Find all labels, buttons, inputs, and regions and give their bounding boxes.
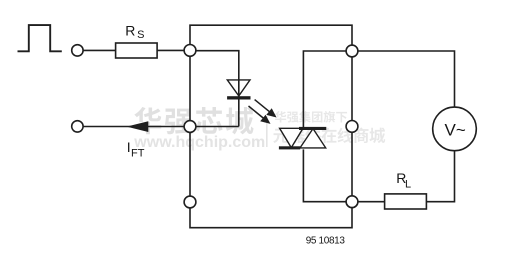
wire triac bottom branch — [303, 149, 346, 201]
svg-text:V~: V~ — [445, 120, 466, 139]
resistor RS — [116, 43, 158, 58]
svg-text:FT: FT — [131, 147, 145, 159]
node pin 3 — [184, 196, 196, 208]
wire RL to node6 — [358, 201, 385, 203]
svg-text:95 10813: 95 10813 — [306, 236, 346, 247]
wire terminal to RS — [83, 49, 116, 51]
node pin 1 — [184, 45, 196, 57]
svg-text:www.hqchip.com: www.hqchip.com — [133, 134, 265, 151]
light coupling arrow 2 — [249, 106, 271, 124]
wire right column node4-node5 — [351, 57, 353, 121]
svg-text:I: I — [127, 139, 131, 155]
resistor RL — [385, 194, 427, 209]
wire left column node2-node3 — [189, 132, 191, 196]
wire bottom rail — [190, 208, 352, 228]
pulse source waveform symbol — [18, 25, 62, 51]
AC source V~ — [433, 107, 477, 151]
svg-text:R: R — [125, 22, 135, 38]
node pin 6 — [346, 196, 358, 208]
LED cathode bar — [227, 96, 250, 99]
triac left triangle — [280, 128, 303, 147]
watermark slogan line 2 元器件在线商城 — [273, 127, 385, 143]
watermark logo text 华强芯城 — [134, 107, 253, 135]
wire node1 through LED to row2 — [196, 51, 239, 127]
svg-text:L: L — [405, 179, 411, 191]
wire V source to RL — [426, 151, 454, 202]
IFT current arrowhead — [127, 121, 149, 132]
wire right column node5-node6 — [351, 132, 353, 196]
watermark divider bar — [266, 116, 268, 147]
terminal input top — [72, 45, 83, 56]
wire left column node1-node2 — [189, 56, 191, 120]
node pin 4 — [346, 45, 358, 57]
light coupling arrow 1 — [255, 100, 277, 118]
svg-text:S: S — [137, 29, 144, 41]
triac right triangle — [300, 129, 326, 148]
node pin 2 — [184, 121, 196, 133]
triac MT1 bar — [279, 146, 300, 149]
wire triac top branch — [303, 51, 346, 127]
wire row2 left segment with IFT arrow — [83, 126, 184, 128]
triac MT2 bar — [299, 127, 326, 130]
node pin 5 — [346, 121, 358, 133]
wire RS to node 1 — [157, 49, 184, 51]
LED emitter diode triangle — [227, 80, 250, 96]
terminal input bottom — [72, 121, 83, 132]
wire node4 to V source — [358, 51, 455, 107]
wire row2 right segment (node2 to LED) — [196, 126, 239, 128]
watermark slogan line 1 华强集团旗下 — [275, 111, 347, 123]
wire top rail — [190, 25, 352, 45]
